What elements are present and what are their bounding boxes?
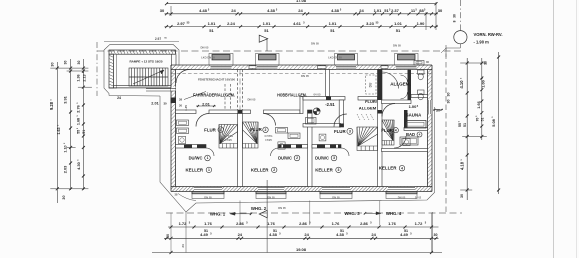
svg-text:2.86: 2.86 bbox=[299, 221, 308, 226]
svg-text:FLUR: FLUR bbox=[204, 128, 217, 133]
svg-text:30: 30 bbox=[163, 102, 167, 106]
svg-text:4: 4 bbox=[401, 166, 403, 170]
svg-text:4.18: 4.18 bbox=[460, 161, 465, 170]
svg-text:19.08: 19.08 bbox=[296, 247, 307, 252]
svg-text:30: 30 bbox=[77, 61, 81, 65]
svg-text:- 1.90 m: - 1.90 m bbox=[474, 40, 490, 45]
svg-text:30: 30 bbox=[166, 234, 170, 238]
svg-text:9.28: 9.28 bbox=[49, 101, 54, 110]
svg-text:2: 2 bbox=[273, 168, 275, 172]
svg-text:FLUR: FLUR bbox=[250, 127, 263, 132]
svg-text:BAD: BAD bbox=[406, 132, 415, 137]
svg-text:8: 8 bbox=[453, 20, 457, 22]
svg-text:70: 70 bbox=[476, 118, 480, 122]
svg-text:1.01: 1.01 bbox=[208, 21, 217, 26]
svg-text:WHG. 2: WHG. 2 bbox=[251, 206, 267, 211]
svg-text:DN 05: DN 05 bbox=[301, 74, 309, 78]
svg-text:1.01: 1.01 bbox=[374, 8, 383, 13]
svg-text:51: 51 bbox=[404, 229, 408, 233]
svg-text:38: 38 bbox=[179, 98, 183, 102]
svg-text:4.61: 4.61 bbox=[293, 21, 302, 26]
svg-text:DN 05: DN 05 bbox=[278, 206, 286, 210]
svg-text:KELLER: KELLER bbox=[315, 167, 333, 172]
svg-text:1.76: 1.76 bbox=[388, 221, 397, 226]
svg-text:24: 24 bbox=[231, 8, 236, 13]
svg-text:24: 24 bbox=[298, 8, 303, 13]
svg-text:O 5TG: O 5TG bbox=[264, 134, 272, 138]
svg-text:30: 30 bbox=[160, 8, 165, 13]
svg-text:FLUR: FLUR bbox=[381, 128, 394, 133]
svg-text:34 02: 34 02 bbox=[415, 196, 422, 199]
svg-text:30: 30 bbox=[51, 62, 55, 66]
svg-text:VORN. RW-RV.: VORN. RW-RV. bbox=[474, 32, 503, 37]
svg-text:30: 30 bbox=[447, 100, 451, 104]
svg-text:1.01: 1.01 bbox=[394, 21, 403, 26]
svg-text:30: 30 bbox=[447, 93, 451, 97]
svg-text:30: 30 bbox=[484, 61, 488, 65]
svg-text:LKO DN 05: LKO DN 05 bbox=[328, 56, 342, 60]
svg-text:55: 55 bbox=[77, 130, 81, 134]
svg-text:30: 30 bbox=[460, 194, 464, 198]
svg-text:2.03: 2.03 bbox=[63, 165, 68, 173]
svg-text:DN 05: DN 05 bbox=[311, 42, 319, 46]
svg-text:DN 05: DN 05 bbox=[248, 97, 256, 101]
svg-text:30: 30 bbox=[434, 233, 438, 237]
svg-text:24: 24 bbox=[181, 244, 185, 248]
svg-text:24: 24 bbox=[359, 8, 364, 13]
svg-text:1.35: 1.35 bbox=[184, 105, 188, 111]
svg-text:2.86: 2.86 bbox=[360, 221, 369, 226]
svg-text:DU: DU bbox=[369, 82, 373, 87]
svg-text:04 05: 04 05 bbox=[314, 92, 321, 96]
svg-text:2: 2 bbox=[296, 156, 298, 160]
svg-text:17.08: 17.08 bbox=[296, 0, 307, 3]
svg-text:FAHRRÄDER/ALLGEM.: FAHRRÄDER/ALLGEM. bbox=[193, 93, 235, 98]
svg-text:30: 30 bbox=[62, 195, 66, 199]
svg-text:2: 2 bbox=[265, 128, 267, 132]
svg-text:2.37: 2.37 bbox=[391, 8, 400, 13]
svg-text:1.00: 1.00 bbox=[482, 80, 486, 87]
svg-text:2.24: 2.24 bbox=[227, 21, 236, 26]
svg-text:24: 24 bbox=[117, 96, 121, 100]
svg-text:4.38: 4.38 bbox=[331, 8, 340, 13]
svg-text:51: 51 bbox=[340, 229, 344, 233]
svg-text:KELLER: KELLER bbox=[251, 167, 269, 172]
svg-text:KELLER: KELLER bbox=[379, 166, 397, 171]
svg-text:DN 05: DN 05 bbox=[393, 44, 401, 48]
svg-text:1.76: 1.76 bbox=[204, 221, 213, 226]
svg-text:ALLGEM: ALLGEM bbox=[359, 106, 377, 111]
svg-text:30: 30 bbox=[179, 104, 183, 108]
svg-text:WHG. 4: WHG. 4 bbox=[386, 211, 402, 216]
svg-text:4.38: 4.38 bbox=[267, 8, 276, 13]
svg-text:WHG. 3: WHG. 3 bbox=[344, 211, 360, 216]
svg-text:DN 05: DN 05 bbox=[204, 196, 212, 200]
svg-text:1.72: 1.72 bbox=[179, 221, 188, 226]
svg-text:1.01: 1.01 bbox=[329, 21, 338, 26]
svg-text:DN 05: DN 05 bbox=[398, 196, 406, 200]
svg-text:1: 1 bbox=[220, 128, 222, 132]
svg-text:51: 51 bbox=[463, 123, 467, 127]
svg-text:1: 1 bbox=[207, 156, 209, 160]
svg-text:30: 30 bbox=[453, 14, 457, 18]
svg-text:3.91: 3.91 bbox=[63, 95, 68, 103]
svg-text:2.97: 2.97 bbox=[155, 37, 161, 41]
svg-text:5.08: 5.08 bbox=[491, 118, 496, 126]
svg-text:1: 1 bbox=[208, 168, 210, 172]
svg-text:51: 51 bbox=[82, 130, 86, 134]
svg-text:13 STG: 13 STG bbox=[224, 134, 233, 138]
svg-text:DN 05: DN 05 bbox=[332, 196, 340, 200]
svg-text:1.90: 1.90 bbox=[417, 21, 426, 26]
svg-text:FLUR/: FLUR/ bbox=[365, 99, 378, 104]
svg-text:-2.51: -2.51 bbox=[325, 102, 335, 107]
svg-text:ALLGEM.: ALLGEM. bbox=[390, 81, 411, 86]
svg-text:51: 51 bbox=[209, 28, 214, 33]
svg-text:3: 3 bbox=[349, 130, 351, 134]
svg-text:1.01: 1.01 bbox=[263, 21, 272, 26]
svg-text:2.01: 2.01 bbox=[202, 101, 211, 106]
svg-text:1.72: 1.72 bbox=[415, 221, 424, 226]
svg-text:LKO DN 05: LKO DN 05 bbox=[201, 56, 215, 60]
svg-text:SAUNA: SAUNA bbox=[406, 112, 422, 117]
svg-text:51: 51 bbox=[204, 229, 208, 233]
svg-text:DU/WC: DU/WC bbox=[189, 156, 203, 161]
svg-text:51: 51 bbox=[264, 28, 269, 33]
svg-text:24: 24 bbox=[304, 232, 309, 237]
svg-text:4.10: 4.10 bbox=[459, 80, 464, 89]
svg-text:DU/WC: DU/WC bbox=[315, 156, 329, 161]
svg-text:2.97: 2.97 bbox=[177, 21, 186, 26]
svg-text:3: 3 bbox=[333, 156, 335, 160]
svg-text:1.10: 1.10 bbox=[64, 145, 68, 152]
svg-text:4.48: 4.48 bbox=[199, 8, 208, 13]
svg-text:51: 51 bbox=[273, 229, 277, 233]
svg-text:30: 30 bbox=[64, 61, 68, 65]
svg-text:24: 24 bbox=[238, 232, 243, 237]
svg-text:17/25: 17/25 bbox=[225, 138, 232, 142]
svg-text:24: 24 bbox=[371, 232, 376, 237]
svg-text:2.76: 2.76 bbox=[76, 104, 81, 112]
svg-text:2.13: 2.13 bbox=[83, 74, 87, 81]
svg-text:55: 55 bbox=[458, 123, 462, 127]
svg-text:30: 30 bbox=[436, 109, 440, 113]
svg-text:DN 05: DN 05 bbox=[201, 46, 209, 50]
svg-text:51: 51 bbox=[330, 28, 335, 33]
svg-text:1.68: 1.68 bbox=[77, 118, 81, 125]
svg-text:1.66: 1.66 bbox=[477, 101, 481, 108]
svg-text:1.76: 1.76 bbox=[267, 221, 276, 226]
svg-text:51: 51 bbox=[481, 118, 485, 122]
svg-text:FENSTERSCHACHT 100/100: FENSTERSCHACHT 100/100 bbox=[198, 77, 235, 81]
svg-text:4: 4 bbox=[395, 128, 397, 132]
svg-text:2.86: 2.86 bbox=[236, 221, 245, 226]
svg-text:30: 30 bbox=[438, 8, 443, 13]
svg-text:HOBBY/ALLGEM.: HOBBY/ALLGEM. bbox=[277, 93, 307, 98]
svg-text:RAMPE + 12 STG 19/25: RAMPE + 12 STG 19/25 bbox=[130, 59, 163, 63]
svg-text:4: 4 bbox=[419, 133, 421, 137]
svg-text:51: 51 bbox=[396, 28, 401, 33]
svg-text:KELLER: KELLER bbox=[186, 167, 204, 172]
svg-text:1.36: 1.36 bbox=[77, 74, 81, 81]
svg-text:DN 05: DN 05 bbox=[267, 196, 275, 200]
svg-text:1.63: 1.63 bbox=[57, 127, 61, 134]
svg-text:2.01: 2.01 bbox=[151, 102, 158, 106]
svg-text:1.76: 1.76 bbox=[332, 221, 341, 226]
svg-text:17/25: 17/25 bbox=[265, 138, 272, 142]
svg-text:4.30: 4.30 bbox=[76, 162, 81, 170]
svg-text:WHG. 1: WHG. 1 bbox=[210, 211, 226, 216]
svg-text:3.23: 3.23 bbox=[366, 21, 375, 26]
svg-text:DU/WC: DU/WC bbox=[278, 156, 292, 161]
svg-text:3: 3 bbox=[338, 168, 340, 172]
svg-text:FLUR: FLUR bbox=[334, 129, 347, 134]
